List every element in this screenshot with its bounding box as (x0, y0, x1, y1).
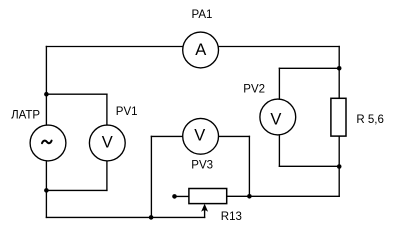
svg-text:R13: R13 (221, 211, 242, 223)
wire PV1 bottom vertical (106, 162, 108, 191)
wire LATR bottom vertical (45, 162, 47, 218)
svg-text:V: V (102, 134, 113, 152)
svg-text:PV1: PV1 (116, 106, 138, 118)
svg-text:ЛАТР: ЛАТР (11, 110, 40, 122)
wire bottom-right horizontal to R13 (227, 195, 340, 197)
junction node R13 right (247, 194, 252, 199)
wire PV2 top vertical (278, 68, 280, 98)
svg-text:R 5,6: R 5,6 (356, 114, 384, 126)
wire branch to PV1 top horizontal (46, 93, 107, 95)
svg-text:V: V (194, 126, 205, 144)
wire PV2 bottom vertical (278, 136, 280, 167)
wire R5,6 bottom vertical (338, 136, 340, 196)
wire right vertical top to R5,6 (338, 47, 340, 99)
ammeter PA1 (183, 32, 219, 68)
wire left vertical upper (45, 47, 47, 125)
tilde symbol (42, 141, 52, 144)
voltmeter PV3 (183, 118, 219, 154)
junction node left bottom (44, 188, 49, 193)
wire PV1 top vertical (106, 94, 108, 124)
terminal node R13 left (172, 194, 177, 199)
svg-text:V: V (270, 111, 281, 129)
wire PV3 left horizontal (151, 135, 181, 137)
wire PA1 right to top-right corner (219, 46, 339, 48)
wire PV3 right vertical (248, 136, 250, 196)
wire top-left horizontal to PA1 (46, 46, 182, 48)
svg-text:PV2: PV2 (243, 84, 265, 96)
potentiometer R13 (189, 189, 227, 204)
wire horizontal to PV2 branch (279, 67, 339, 69)
voltmeter PV1 (89, 125, 125, 161)
svg-text:PA1: PA1 (192, 9, 213, 21)
voltmeter PV2 (260, 99, 296, 135)
wire bottom horizontal to R13 wiper (46, 216, 204, 218)
junction node bottom PV3 (149, 215, 154, 220)
resistor R5,6 (331, 98, 346, 136)
junction node right mid (337, 164, 342, 169)
wire R13 wiper stem (204, 207, 206, 217)
wire branch PV1 bottom horizontal (46, 189, 107, 191)
source LATR (30, 125, 66, 161)
junction node right top (337, 66, 342, 71)
junction node left top (44, 92, 49, 97)
wire PV3 right horizontal (219, 135, 249, 137)
wire PV2 bottom horizontal to right (279, 165, 339, 167)
svg-text:A: A (195, 41, 206, 59)
wire PV3 left vertical to bottom (150, 136, 152, 217)
R13 wiper arrowhead (201, 204, 208, 212)
svg-text:PV3: PV3 (191, 159, 213, 171)
wire R13 left terminal stub (175, 195, 189, 197)
